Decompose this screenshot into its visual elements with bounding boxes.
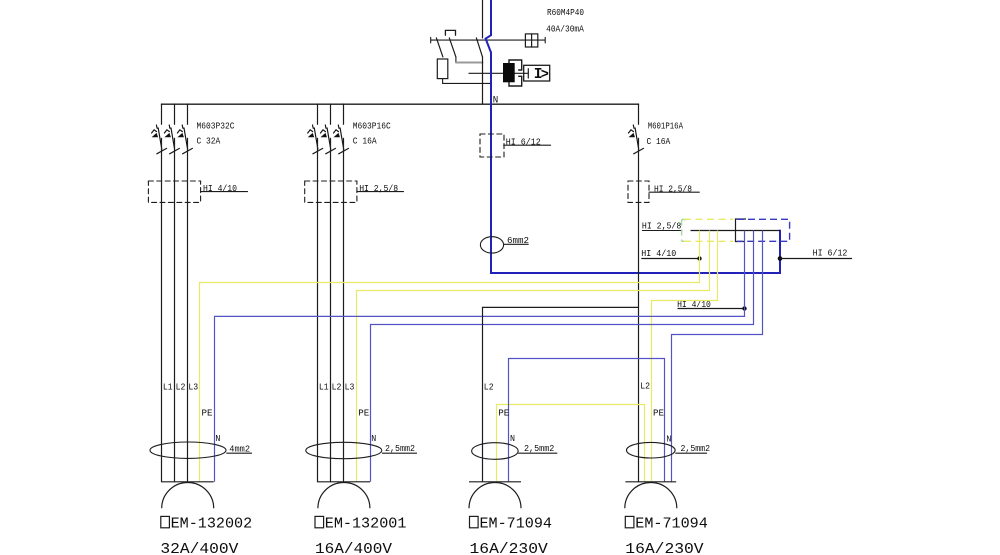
label HI 2,5/8 at breaker Q2 xyxy=(357,191,404,193)
svg-text:PE: PE xyxy=(202,409,213,419)
breaker Q1 pole L1 wire upper xyxy=(161,104,163,124)
test button box on linkage line xyxy=(525,34,537,47)
load DT4 cable oval xyxy=(627,442,676,458)
wire incoming neutral N from top (blue) xyxy=(490,0,492,35)
wire test circuit from R1 to neutral xyxy=(443,79,490,84)
svg-text:HI 2,5/8: HI 2,5/8 xyxy=(642,222,681,232)
svg-text:L3: L3 xyxy=(345,383,355,393)
breaker Q1 pole L1 trip glyph xyxy=(152,125,162,149)
breaker Q1 pole L2 wire lower xyxy=(174,138,176,481)
breaker Q3 pole trip glyph xyxy=(629,125,639,149)
wire PE yellow link loads DT4-DT3 xyxy=(497,405,645,482)
breaker Q2 pole L1 trip glyph xyxy=(308,125,318,149)
wire HI 6/12 tap line xyxy=(780,258,852,260)
load DT4 cable label 2,5mm2 xyxy=(675,452,707,454)
node junction dot on N wire 1 xyxy=(742,306,746,310)
svg-text:4mm2: 4mm2 xyxy=(229,445,250,455)
wire PE yellow 1 to load DT1 xyxy=(200,231,700,482)
wire PE yellow 3 to load DT4 xyxy=(652,231,718,482)
svg-text:L2: L2 xyxy=(332,383,342,393)
breaker Q1 pole L2 trip glyph xyxy=(164,125,174,149)
svg-text:HI 6/12: HI 6/12 xyxy=(506,138,541,148)
wire PE yellow 2 to load DT2 xyxy=(357,231,710,482)
svg-text:M603P32C: M603P32C xyxy=(197,121,236,131)
wire N blue 1 to load DT1 xyxy=(215,231,745,482)
svg-text:L1: L1 xyxy=(319,383,329,393)
breaker Q2 pole L2 trip glyph xyxy=(321,125,331,149)
svg-text:R60M4P40: R60M4P40 xyxy=(547,8,584,18)
resistor R1 test resistor of RCD xyxy=(437,59,448,79)
load DT2 cable label 2,5mm2 xyxy=(382,452,417,454)
wire N blue 3 to load DT4 xyxy=(672,231,763,482)
svg-text:2,5mm2: 2,5mm2 xyxy=(385,444,415,454)
wire main distribution bus xyxy=(162,103,639,105)
breaker Q2 pole L1 wire lower xyxy=(317,138,319,481)
breaker Q1 pole L2 wire upper xyxy=(174,104,176,124)
breaker Q2 pole L2 blade tick xyxy=(326,148,336,153)
dashed cable box at breaker Q3 output xyxy=(628,181,649,202)
svg-text:HI 2,5/8: HI 2,5/8 xyxy=(654,184,692,194)
svg-text:N: N xyxy=(666,435,671,445)
load DT3 name box glyph xyxy=(470,516,479,527)
dashed cable box at breaker Q1 output xyxy=(148,181,200,202)
node junction dot on N at HI 6/12 tap xyxy=(778,256,783,261)
load DT3 feeder dome xyxy=(469,482,521,508)
breaker Q2 pole L3 wire lower xyxy=(343,138,345,481)
N MAIN xyxy=(480,53,852,274)
svg-text:N: N xyxy=(371,434,376,444)
BREAKERS xyxy=(148,104,699,482)
current transformer T1 toroid core (filled) xyxy=(503,63,515,82)
load DT3 cable label 2,5mm2 xyxy=(518,452,557,454)
wire through current transformer xyxy=(469,72,524,74)
svg-text:HI 6/12: HI 6/12 xyxy=(813,249,848,259)
svg-text:C 32A: C 32A xyxy=(197,136,221,146)
svg-text:L2: L2 xyxy=(640,382,650,392)
svg-text:EM-132002: EM-132002 xyxy=(171,516,253,533)
svg-text:L2: L2 xyxy=(484,383,494,393)
svg-text:HI 2,5/8: HI 2,5/8 xyxy=(359,184,398,194)
RCD U1 switch blade pole 1 xyxy=(436,38,443,57)
green dashed enclosure left edge xyxy=(681,220,683,242)
svg-text:16A/400V: 16A/400V xyxy=(315,541,392,555)
breaker Q1 pole L1 wire lower xyxy=(161,138,163,481)
svg-text:32A/400V: 32A/400V xyxy=(160,541,238,555)
wire HI 4/10 upper leader to PE wire xyxy=(641,258,699,260)
breaker Q2 pole L3 blade tick xyxy=(339,148,349,153)
load DT4 feeder dome xyxy=(625,482,677,508)
svg-text:2,5mm2: 2,5mm2 xyxy=(681,444,711,454)
svg-text:M601P16A: M601P16A xyxy=(648,122,684,132)
breaker Q3 pole wire lower xyxy=(638,138,640,481)
load DT2 name box glyph xyxy=(315,516,324,527)
wire main neutral N (thick blue) from RCD down, right and up to terminal xyxy=(491,53,780,274)
svg-text:6mm2: 6mm2 xyxy=(507,236,529,246)
RCD U1 switch blade neutral (blue kink) xyxy=(486,35,491,52)
load DT1 name box glyph xyxy=(161,516,170,527)
LOADS xyxy=(150,382,710,555)
svg-text:PE: PE xyxy=(498,409,509,419)
SUPPLY AND RCD xyxy=(431,0,585,106)
load DT3 cable oval xyxy=(472,443,519,460)
wire terminal bar (black) xyxy=(691,230,781,232)
breaker Q3 pole blade tick xyxy=(634,148,644,153)
svg-text:M603P16C: M603P16C xyxy=(353,121,392,131)
svg-text:16A/230V: 16A/230V xyxy=(470,541,548,555)
breaker Q2 pole L1 blade tick xyxy=(313,148,323,153)
RCD U1 switch blade pole 2 xyxy=(449,38,456,57)
load DT1 feeder dome xyxy=(162,482,214,508)
wire L2 branch from breaker Q3 to load DT3 xyxy=(483,307,639,481)
JUNCTION xyxy=(641,219,789,311)
breaker Q1 pole L1 blade tick xyxy=(157,148,167,153)
svg-text:C 16A: C 16A xyxy=(353,136,377,146)
svg-text:16A/230V: 16A/230V xyxy=(625,541,703,555)
cable marker oval 6mm2 on N xyxy=(480,237,503,253)
breaker Q1 pole L3 wire upper xyxy=(187,104,189,124)
yellow dashed enclosure PE box xyxy=(684,218,733,220)
load DT3 terminal bar xyxy=(469,481,521,483)
svg-text:>: > xyxy=(541,68,549,83)
breaker Q1 pole L2 blade tick xyxy=(170,148,180,153)
RCD U1 switch blade pole 3 xyxy=(476,38,482,57)
breaker Q3 pole wire upper xyxy=(638,104,640,124)
breaker Q2 pole L3 trip glyph xyxy=(334,125,344,149)
svg-text:N: N xyxy=(215,434,220,444)
dashed cable box at breaker Q2 output xyxy=(305,181,357,202)
svg-text:40A/30mA: 40A/30mA xyxy=(546,25,584,35)
label HI 2,5/8 at terminal with underline xyxy=(642,230,682,232)
breaker Q1 pole L3 blade tick xyxy=(183,148,193,153)
wire HI 4/10 lower leader to N wire xyxy=(678,308,745,310)
label 6mm2 with leader underline xyxy=(504,243,529,245)
node junction dot on PE wire 1 xyxy=(697,256,701,260)
svg-text:EM-71094: EM-71094 xyxy=(480,516,553,533)
svg-text:PE: PE xyxy=(653,409,664,419)
svg-text:EM-71094: EM-71094 xyxy=(635,516,708,533)
breaker Q2 pole L2 wire upper xyxy=(330,104,332,124)
breaker Q1 pole L3 trip glyph xyxy=(177,125,187,149)
wire blade2 stub xyxy=(455,57,457,63)
breaker Q2 pole L3 wire upper xyxy=(343,104,345,124)
black terminal bracket xyxy=(736,219,747,242)
wire phase conductor below switch down to bus xyxy=(482,57,484,104)
blue dashed enclosure N box xyxy=(737,219,790,241)
BUS xyxy=(162,103,639,105)
load DT2 feeder dome xyxy=(318,482,370,508)
svg-text:L1: L1 xyxy=(163,383,173,393)
load DT4 terminal bar xyxy=(625,481,676,483)
wire gray linkage blade2 to phase conductor xyxy=(456,62,483,64)
wire incoming phase L from top xyxy=(482,0,484,38)
label HI 4/10 at breaker Q1 xyxy=(201,191,248,193)
wire N blue link loads DT4-DT3 xyxy=(509,359,665,482)
svg-text:PE: PE xyxy=(358,409,369,419)
svg-text:L2: L2 xyxy=(176,383,186,393)
svg-text:EM-132001: EM-132001 xyxy=(325,516,407,533)
RCD U1 actuator staple bracket xyxy=(445,30,455,35)
breaker Q1 pole L3 wire lower xyxy=(187,138,189,481)
load DT2 cable oval xyxy=(306,442,382,458)
trip relay I> box xyxy=(524,65,550,83)
svg-text:N: N xyxy=(510,434,515,444)
load DT1 terminal bar xyxy=(162,481,214,483)
label HI 2,5/8 at breaker Q3 xyxy=(649,191,699,193)
svg-text:HI 4/10: HI 4/10 xyxy=(641,249,676,259)
load DT1 cable label 4mm2 xyxy=(226,452,252,454)
svg-text:HI 4/10: HI 4/10 xyxy=(203,184,237,194)
dashed cable box HI 6/12 on N wire xyxy=(480,134,504,157)
load DT4 name box glyph xyxy=(625,516,634,527)
wire N blue 2 to load DT2 xyxy=(371,231,754,482)
svg-text:C 16A: C 16A xyxy=(647,137,671,147)
current transformer T1 sensing frame xyxy=(509,60,522,86)
breaker Q2 pole L2 wire lower xyxy=(330,138,332,481)
label HI 6/12 at N cable box xyxy=(504,144,551,146)
svg-text:L3: L3 xyxy=(188,383,198,393)
load DT2 terminal bar xyxy=(318,481,370,483)
load DT1 cable oval xyxy=(150,442,226,458)
breaker Q2 pole L1 wire upper xyxy=(317,104,319,124)
RCD U1 mechanical linkage line with end terminals xyxy=(431,37,546,43)
svg-text:2,5mm2: 2,5mm2 xyxy=(524,444,554,454)
